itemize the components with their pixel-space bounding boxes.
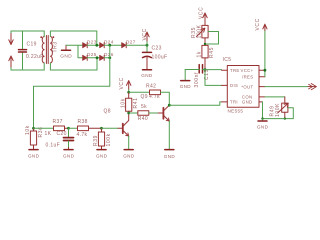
svg-text:4.7k: 4.7k — [77, 132, 88, 138]
op-amp IC5 NE555 box — [223, 57, 260, 113]
svg-text:GND: GND — [28, 154, 40, 159]
supply VCC symbol (R35 top) — [203, 13, 207, 23]
resistor R39 — [93, 128, 112, 149]
transistor Q8 — [123, 113, 129, 136]
capacitor C20 — [46, 128, 74, 149]
ground GND under C20 — [63, 150, 75, 159]
wire AC left rail — [10, 31, 12, 34]
wire D23 cathode to D24 anode — [87, 44, 99, 46]
supply VCC symbol (rectifier output) — [146, 41, 148, 45]
svg-text:0.1uF: 0.1uF — [46, 143, 61, 149]
svg-text:D23: D23 — [87, 40, 97, 45]
node junction C20 — [67, 127, 70, 130]
svg-text:GND: GND — [123, 154, 135, 159]
node junction bottom tap — [96, 56, 99, 59]
resistor R38 — [69, 119, 102, 138]
svg-text:300nf: 300nf — [194, 72, 200, 88]
svg-text:TRI: TRI — [230, 100, 238, 105]
svg-text:GND: GND — [180, 84, 192, 89]
svg-text:VCC: VCC — [199, 7, 205, 19]
resistor R45 — [197, 45, 216, 69]
svg-text:*OUT: *OUT — [241, 84, 253, 89]
capacitor C19 — [19, 31, 44, 70]
resistor R37 — [34, 119, 69, 137]
wire R49 wiper loop — [285, 108, 294, 119]
transformer TR3 — [42, 36, 52, 64]
wire bridge plus to detector chain — [34, 45, 110, 128]
IC5 pin GND — [259, 101, 263, 103]
svg-text:100uF: 100uF — [152, 55, 168, 61]
ground GND under R49 — [257, 119, 269, 130]
connector pin arrow up (AC input 2) — [9, 56, 13, 67]
svg-text:GND: GND — [141, 73, 153, 78]
svg-text:100k: 100k — [106, 133, 112, 146]
diode D23 — [83, 40, 97, 48]
trimmer R35 — [191, 23, 208, 39]
svg-text:VCC: VCC — [119, 77, 125, 89]
diode D24 — [100, 40, 114, 48]
svg-text:GND: GND — [164, 154, 176, 159]
wire R35 wiper loop — [205, 32, 219, 45]
IC5 pin CON — [259, 96, 265, 98]
wire R49 bottom to ground — [263, 118, 285, 120]
wire CON to R49 — [265, 96, 285, 98]
node junction R41 R40 Q8 collector — [127, 112, 130, 115]
off-page output arrow — [308, 84, 316, 90]
wire IC GND pin down — [262, 102, 264, 119]
svg-text:10k: 10k — [25, 125, 31, 135]
svg-text:R37: R37 — [53, 119, 63, 125]
svg-text:100K: 100K — [196, 24, 202, 38]
node junction R36 top — [32, 127, 35, 130]
svg-text:4.7k: 4.7k — [149, 94, 160, 100]
svg-text:C19: C19 — [27, 42, 37, 48]
IC5 pin TRE — [222, 69, 228, 71]
svg-text:0.22uF: 0.22uF — [26, 54, 44, 60]
svg-text:VCC: VCC — [255, 18, 261, 30]
svg-text:D25: D25 — [87, 52, 97, 57]
transformer TR3 pin stubs — [44, 31, 50, 70]
wire bridge negative node — [66, 45, 83, 58]
IC5 pin VCC+ — [259, 69, 265, 71]
supply VCC symbol (IC) — [263, 24, 267, 30]
svg-text:5k: 5k — [141, 104, 147, 110]
svg-text:Q8: Q8 — [104, 109, 111, 115]
node junction VCC rail — [146, 44, 149, 47]
resistor R42 — [129, 84, 170, 105]
capacitor C15 — [185, 65, 210, 88]
wire D24 cathode to D27 — [104, 44, 121, 46]
resistor R40 — [129, 104, 163, 122]
svg-text:VCC+: VCC+ — [241, 68, 254, 73]
svg-text:R40: R40 — [138, 116, 148, 122]
svg-text:R38: R38 — [78, 119, 88, 125]
svg-text:D26: D26 — [104, 52, 114, 57]
node junction top tap — [95, 44, 98, 47]
wire timing node to TRE pin — [205, 69, 222, 71]
svg-text:TR3: TR3 — [53, 41, 59, 52]
svg-text:R42: R42 — [146, 84, 156, 90]
resistor R41 — [120, 92, 139, 113]
wire Q9 collector to TRI pin — [169, 102, 221, 105]
node junction Q9 collector TRI — [168, 104, 171, 107]
svg-text:1K: 1K — [45, 131, 52, 137]
wire R38 junction to Q8 base — [102, 127, 119, 129]
wire D26 cathode to bridge plus — [104, 57, 110, 59]
capacitor C23 (polarized 100uF) — [143, 45, 168, 69]
svg-text:Q9: Q9 — [141, 94, 148, 100]
svg-text:NE555: NE555 — [228, 108, 244, 113]
IC5 pin /RES — [259, 76, 265, 78]
svg-text:/RES: /RES — [242, 75, 253, 80]
wire Q9 emitter to ground — [168, 121, 170, 149]
svg-text:D24: D24 — [104, 40, 114, 45]
wire AC bottom rail — [11, 69, 44, 71]
IC5 pin TRI — [222, 101, 228, 103]
connector pin arrow down (AC input 1) — [9, 34, 13, 45]
wire OUT to edge — [265, 86, 308, 88]
wire VCC rail right — [264, 70, 266, 77]
wire R35 bottom to R45 top — [204, 38, 206, 46]
svg-text:C20: C20 — [57, 131, 67, 137]
node junction bridge plus top — [108, 44, 111, 47]
ground GND under Q9 — [164, 150, 176, 159]
ground GND under R39 — [96, 150, 108, 159]
trimmer R49 — [270, 97, 289, 119]
node junction Q8 base — [100, 127, 103, 130]
wire secondary top to bridge — [50, 31, 96, 45]
ground GND under C15 — [180, 70, 192, 90]
svg-text:1k: 1k — [197, 51, 203, 57]
wire secondary bottom to bridge — [50, 58, 97, 70]
svg-text:DIS: DIS — [230, 83, 238, 88]
ground GND under Q8 — [123, 150, 135, 159]
resistor R36 — [25, 125, 44, 149]
svg-text:R39: R39 — [93, 135, 99, 146]
diode D27 — [122, 40, 136, 48]
IC5 pin OUT — [259, 86, 265, 88]
svg-text:C23: C23 — [152, 46, 162, 52]
svg-text:GND: GND — [63, 154, 75, 159]
IC5 pin DIS — [222, 84, 228, 86]
node junction timing — [204, 68, 207, 71]
svg-text:100K: 100K — [275, 103, 281, 117]
wire AC top rail — [11, 30, 44, 32]
transformer TR3 phase dots — [40, 36, 42, 38]
svg-text:GND: GND — [96, 154, 108, 159]
diode D25 — [83, 52, 97, 60]
svg-text:R41: R41 — [133, 98, 139, 109]
svg-text:IC5: IC5 — [223, 57, 232, 63]
ground GND bridge negative — [60, 45, 72, 59]
node junction VCC R42 — [128, 90, 130, 93]
wire Q8 emitter to ground — [128, 136, 130, 149]
wire D25 cathode to D26 anode — [87, 57, 99, 59]
transistor Q9 — [163, 105, 169, 121]
supply VCC symbol (R41 pull-up) — [127, 81, 131, 90]
svg-text:R45: R45 — [209, 47, 215, 58]
svg-text:TRE: TRE — [230, 68, 240, 73]
svg-text:GND: GND — [242, 100, 253, 105]
node junction bridge plus bottom — [108, 56, 111, 59]
diode D26 — [100, 52, 114, 60]
ground GND under C23 — [141, 70, 153, 78]
svg-text:10k: 10k — [120, 98, 126, 108]
svg-text:VCC: VCC — [142, 28, 148, 40]
ground GND under R36 — [28, 150, 40, 159]
svg-text:GND: GND — [257, 125, 269, 130]
wire timing node to DIS pin — [205, 70, 222, 86]
wire D27 cathode to VCC node — [126, 44, 147, 46]
svg-text:D27: D27 — [126, 40, 136, 45]
svg-text:GND: GND — [60, 53, 72, 59]
